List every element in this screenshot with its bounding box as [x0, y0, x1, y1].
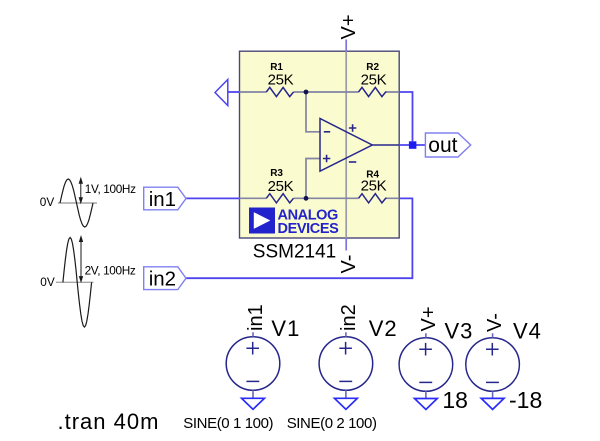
svg-text:V1: V1 [271, 316, 300, 341]
voltage source V2 [319, 337, 373, 391]
wire ref to box [228, 91, 240, 93]
V3 pin stubs [425, 333, 427, 398]
annotation sine 2V curve [63, 238, 92, 328]
tag in2 [144, 267, 186, 290]
svg-text:18: 18 [442, 387, 468, 413]
annotation sine 2V axis [56, 281, 94, 283]
svg-text:V+: V+ [418, 306, 440, 331]
Analog Devices logo square [249, 208, 275, 234]
wire R2 to out node [399, 92, 412, 141]
svg-text:in1: in1 [245, 304, 267, 331]
svg-text:out: out [428, 134, 457, 157]
annotation sine 1V curve [60, 179, 93, 227]
svg-text:.tran 40m: .tran 40m [58, 409, 160, 434]
wire row1 inside box [240, 91, 400, 93]
svg-text:V4: V4 [513, 319, 542, 344]
wire in1 to box [186, 197, 240, 199]
voltage source V1 [226, 337, 280, 391]
svg-text:0V: 0V [40, 275, 55, 289]
ground V3 [415, 399, 438, 410]
IC body SSM2141 yellow box [240, 51, 400, 238]
wire supply rail inside box [345, 51, 347, 238]
wire inverting input stub [306, 92, 320, 132]
node out square [409, 141, 417, 149]
svg-text:SSM2141: SSM2141 [253, 242, 336, 263]
svg-text:0V: 0V [40, 195, 55, 209]
voltage source V3 [399, 338, 453, 392]
V1 pin stubs [252, 332, 254, 398]
svg-text:25K: 25K [268, 178, 294, 195]
wire V+ supply lead above box [345, 40, 347, 52]
svg-text:25K: 25K [361, 71, 387, 88]
resistor R1 [266, 87, 293, 96]
V4 pin stubs [492, 333, 494, 398]
svg-text:V-: V- [484, 313, 506, 332]
op-amp U1 [320, 119, 399, 172]
wire row2 inside box [240, 197, 400, 199]
ground V1 [242, 398, 265, 409]
wire R4 to in2 [186, 198, 412, 278]
resistor R4 [359, 194, 387, 203]
annotation sine 2V arrow [80, 237, 83, 282]
resistor R3 [266, 194, 293, 203]
tag out [425, 133, 470, 157]
wire noninverting input stub [306, 159, 320, 199]
svg-text:in1: in1 [149, 188, 176, 211]
svg-text:V-: V- [338, 255, 360, 274]
svg-text:1V, 100Hz: 1V, 100Hz [85, 182, 136, 196]
op-amp V+ supply plus mark [349, 124, 356, 131]
tag in1 [144, 187, 186, 210]
svg-text:V+: V+ [338, 14, 360, 39]
V2 pin stubs [345, 332, 347, 398]
svg-text:25K: 25K [361, 178, 387, 195]
annotation sine 1V axis [58, 202, 97, 204]
svg-text:SINE(0 1 100): SINE(0 1 100) [183, 415, 273, 432]
junction dot row2 [304, 196, 309, 201]
svg-text:DEVICES: DEVICES [278, 221, 340, 237]
wire opamp output to tag [399, 144, 425, 146]
resistor R2 [359, 87, 387, 96]
ground V2 [335, 398, 358, 409]
ground V4 [481, 398, 504, 409]
svg-text:-18: -18 [509, 387, 542, 413]
svg-text:SINE(0 2 100): SINE(0 2 100) [287, 415, 377, 432]
op-amp noninverting input plus mark [323, 155, 330, 162]
svg-text:V3: V3 [445, 319, 474, 344]
svg-text:2V, 100Hz: 2V, 100Hz [85, 263, 136, 277]
svg-text:25K: 25K [268, 71, 294, 88]
svg-text:in2: in2 [149, 268, 176, 291]
voltage source V4 [466, 338, 520, 392]
ground arrow left (ref) [215, 80, 228, 106]
op-amp inverting input minus mark [324, 131, 330, 133]
wire V- supply lead below box [345, 238, 347, 251]
junction dot row1 [304, 90, 309, 95]
svg-text:V2: V2 [369, 316, 398, 341]
annotation sine 1V arrow [79, 178, 82, 202]
op-amp V- supply minus mark [349, 161, 356, 163]
svg-text:in2: in2 [338, 304, 360, 331]
